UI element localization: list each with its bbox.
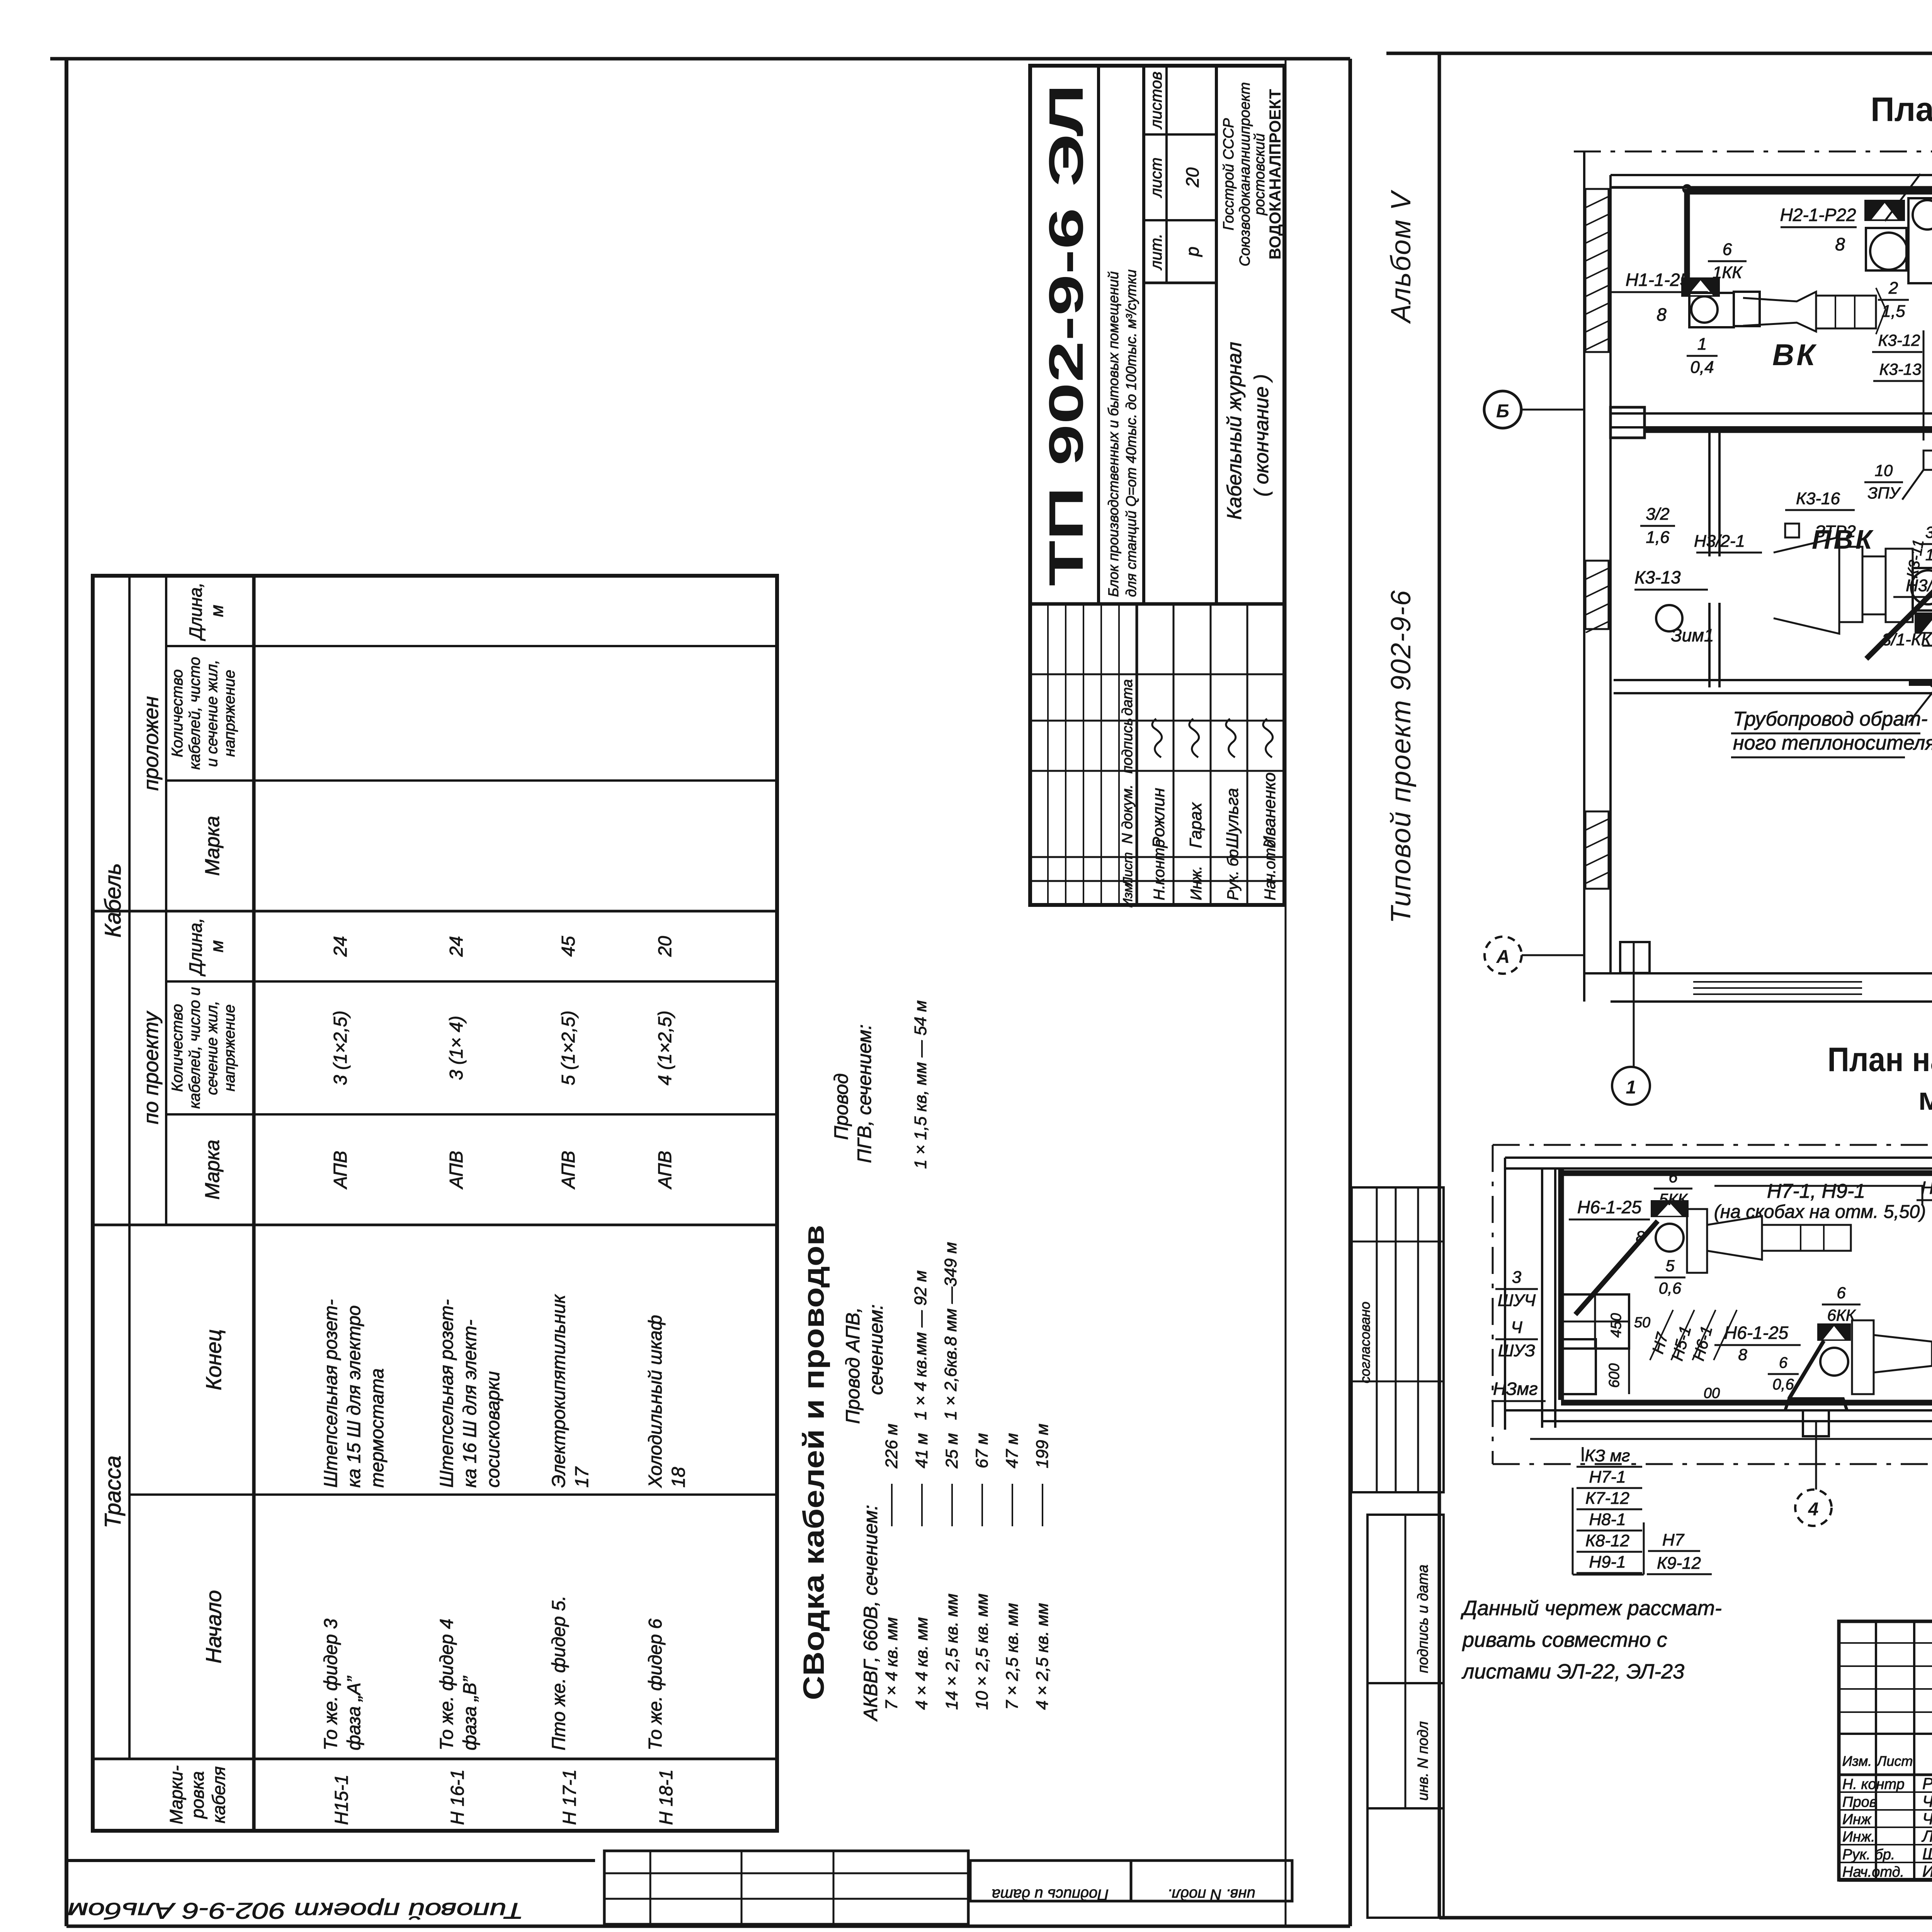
svg-text:(на скобах на отм. 5,50): (на скобах на отм. 5,50) [1714,1202,1926,1222]
svg-text:Н. контр: Н. контр [1842,1776,1905,1793]
svg-text:Лист: Лист [1121,852,1135,887]
pump PVK big [1774,537,1839,634]
svg-text:Типовой проект 902-9-6: Типовой проект 902-9-6 [1386,590,1417,923]
svg-text:м: м [207,605,227,617]
svg-text:НЗмг: НЗмг [1493,1379,1538,1399]
flipped caption boxes [970,1861,1131,1901]
main rows [1097,66,1100,604]
svg-text:199 м: 199 м [1033,1423,1052,1468]
cable journal table outer box [93,576,777,1831]
svg-text:АПВ: АПВ [330,1151,351,1190]
right sheet frame [1438,53,1441,1918]
svg-text:Госстрой СССР: Госстрой СССР [1221,118,1237,230]
svg-text:226 м: 226 м [882,1423,901,1469]
svg-text:ТП 902-9-6 ЭЛ: ТП 902-9-6 ЭЛ [1039,84,1093,586]
outer dash-dot boundary [1493,1144,1932,1146]
svg-text:6: 6 [1668,1168,1678,1186]
svg-text:Количество: Количество [169,1004,186,1092]
svg-text:р: р [1182,247,1202,257]
svg-text:8: 8 [1835,234,1845,254]
svg-text:4 × 4 кв. мм: 4 × 4 кв. мм [912,1617,931,1710]
svg-text:Марка: Марка [201,1139,224,1199]
top wall [1505,1156,1932,1159]
svg-text:ровка: ровка [187,1771,207,1819]
svg-text:Нач.отд.: Нач.отд. [1842,1864,1904,1880]
svg-text:Конец: Конец [201,1329,226,1390]
columns on bottom wall [1620,942,1650,973]
svg-text:ростовский: ростовский [1252,133,1268,216]
svg-text:25 м: 25 м [942,1433,961,1469]
svg-text:Н8-1: Н8-1 [1589,1510,1626,1529]
svg-text:7 × 2,5 кв. мм: 7 × 2,5 кв. мм [1003,1603,1022,1710]
left bottom label stack [1582,1447,1584,1461]
svg-text:термостата: термостата [367,1368,388,1488]
cable boxes under wall [1923,451,1932,470]
svg-text:1 × 4 кв.мм — 92 м: 1 × 4 кв.мм — 92 м [911,1270,930,1420]
svg-text:Штепсельная розет-: Штепсельная розет- [321,1299,341,1488]
svg-text:То же. фидер 4: То же. фидер 4 [437,1619,457,1750]
svg-text:0,6: 0,6 [1659,1279,1682,1297]
svg-text:ка 16 Ш для элект-: ка 16 Ш для элект- [460,1320,480,1488]
svg-text:10: 10 [1875,461,1893,480]
cable loop [1558,1170,1564,1400]
svg-text:План на отм ⁺3300: План на отм ⁺3300 [1871,90,1932,128]
svg-text:АПВ: АПВ [446,1151,467,1190]
svg-text:АКВВГ, 660В, сечением:: АКВВГ, 660В, сечением: [860,1505,881,1722]
svg-text:ного теплоносителя: ного теплоносителя [1733,732,1932,754]
svg-text:Провод АПВ,: Провод АПВ, [842,1307,864,1424]
svg-text:проложен: проложен [139,696,163,791]
svg-text:Рохлин: Рохлин [1922,1774,1932,1793]
svg-text:1 × 1,5 кв, мм — 54 м: 1 × 1,5 кв, мм — 54 м [911,1000,930,1169]
svg-text:подпись и дата: подпись и дата [1415,1565,1431,1673]
svg-text:4 × 2,5 кв. мм: 4 × 2,5 кв. мм [1033,1603,1052,1710]
svg-text:Типовой проект 902-9-6: Типовой проект 902-9-6 Альбом [68,1898,524,1923]
svg-text:Н3/2-1: Н3/2-1 [1694,532,1745,551]
binding strip: left sheet edge line [1349,59,1352,1926]
svg-text:14 × 2,5 кв. мм: 14 × 2,5 кв. мм [942,1594,961,1710]
svg-text:напряжение: напряжение [221,1004,238,1091]
top wall [1611,174,1932,176]
svg-text:Н7: Н7 [1662,1531,1685,1549]
svg-text:Пров: Пров [1842,1794,1877,1810]
svg-text:лист: лист [1147,157,1165,198]
svg-text:ПГВ, сечением:: ПГВ, сечением: [854,1024,875,1163]
svg-text:3/1: 3/1 [1925,523,1932,541]
svg-text:Ч: Ч [1511,1318,1522,1337]
svg-text:Н2-1-Р22: Н2-1-Р22 [1780,205,1856,225]
svg-text:Гарах: Гарах [1186,802,1205,848]
svg-text:Трасса: Трасса [100,1456,126,1528]
svg-text:К3-13: К3-13 [1879,360,1922,378]
fan unit 1 [1681,277,1720,297]
svg-text:6: 6 [1723,240,1732,259]
svg-text:41 м: 41 м [912,1433,931,1468]
svg-text:24: 24 [330,936,351,957]
svg-text:5 (1×2,5): 5 (1×2,5) [558,1010,579,1085]
svg-text:Н7-1, Н9-1: Н7-1, Н9-1 [1767,1180,1865,1202]
svg-text:Инж.: Инж. [1188,866,1205,900]
svg-text:Холодильный шкаф: Холодильный шкаф [645,1315,666,1488]
svg-text:Марка: Марка [201,816,224,876]
svg-text:Н7-1: Н7-1 [1589,1468,1626,1486]
svg-text:45: 45 [558,936,579,957]
inner line near fold [1285,59,1287,1926]
svg-text:фаза „А”: фаза „А” [344,1675,364,1750]
svg-text:Штепсельная розет-: Штепсельная розет- [437,1299,457,1488]
svg-text:Н 17-1: Н 17-1 [560,1769,580,1825]
svg-text:Провод: Провод [830,1073,852,1140]
svg-text:То же. фидер 3: То же. фидер 3 [321,1619,341,1750]
svg-text:Н6-1-25: Н6-1-25 [1724,1323,1789,1343]
column lines [93,1758,777,1760]
svg-text:сосисковарки: сосисковарки [483,1371,503,1488]
svg-text:ВОДОКАНАЛПРОЕКТ: ВОДОКАНАЛПРОЕКТ [1266,89,1284,260]
svg-text:ШУЗ: ШУЗ [1498,1341,1535,1360]
svg-text:Н3/1-1-25: Н3/1-1-25 [1906,576,1932,595]
small stamp grid [604,1851,968,1924]
svg-text:Начало: Начало [201,1590,226,1663]
signature table [1839,1621,1932,1880]
svg-text:То же. фидер 6: То же. фидер 6 [645,1619,666,1750]
svg-text:и сечение жил,: и сечение жил, [204,660,221,767]
svg-text:Чапны: Чапны [1922,1792,1932,1810]
svg-text:1 × 2,6кв.8 мм —349 м: 1 × 2,6кв.8 мм —349 м [941,1242,960,1420]
svg-text:Зим1: Зим1 [1671,625,1714,645]
svg-text:Рук. бр.: Рук. бр. [1225,845,1242,900]
svg-text:согласовано: согласовано [1357,1301,1373,1383]
svg-text:м: м [207,940,227,952]
svg-text:3/1-КК: 3/1-КК [1882,630,1932,649]
cable loop VK [1684,189,1690,287]
svg-text:3 (1× 4): 3 (1× 4) [446,1016,467,1080]
svg-text:ка 15 Ш для электро: ка 15 Ш для электро [344,1305,364,1488]
svg-text:инв. N подл: инв. N подл [1415,1721,1431,1801]
svg-text:Н 18-1: Н 18-1 [656,1769,677,1825]
bubble A [1485,937,1522,974]
svg-text:Н9-1: Н9-1 [1589,1553,1626,1571]
svg-text:20: 20 [1182,167,1202,188]
svg-text:К3-12: К3-12 [1878,331,1920,349]
svg-text:0,4: 0,4 [1690,358,1714,377]
svg-text:Н7-1-Р22: Н7-1-Р22 [1921,1178,1932,1198]
svg-text:Н1-1-25: Н1-1-25 [1626,270,1690,290]
svg-text:1,5: 1,5 [1881,302,1905,321]
bubble 1 [1612,1067,1650,1105]
svg-text:Пто же. фидер 5.: Пто же. фидер 5. [549,1595,569,1750]
svg-text:Нач.отд: Нач.отд [1262,840,1279,901]
bubble 4 [1795,1490,1832,1526]
left sheet frame [65,59,68,1926]
svg-text:К3-13: К3-13 [1634,567,1681,587]
svg-text:инв. N подл.: инв. N подл. [1167,1886,1255,1903]
svg-text:Длина,: Длина, [185,582,206,641]
svg-text:8: 8 [1656,304,1667,325]
svg-text:3: 3 [1512,1268,1522,1287]
fan 6 [1817,1323,1851,1341]
svg-text:1: 1 [1697,335,1707,354]
PVK inner wall [1708,427,1711,556]
svg-text:ЗПУ: ЗПУ [1867,484,1901,502]
bubble B [1484,391,1521,428]
svg-text:Кабельный журнал: Кабельный журнал [1223,342,1246,520]
svg-text:Инж.: Инж. [1842,1829,1875,1845]
svg-text:Н6-1-25: Н6-1-25 [1577,1197,1642,1217]
svg-text:кабелей, число и: кабелей, число и [186,987,203,1109]
svg-text:8: 8 [1738,1345,1747,1364]
svg-text:1,6: 1,6 [1646,528,1670,547]
bottom strip top line [66,1859,595,1862]
svg-text:Длина,: Длина, [185,918,206,977]
svg-text:напряжение: напряжение [221,670,238,757]
svg-text:ШУЧ: ШУЧ [1498,1291,1536,1310]
svg-text:А: А [1496,947,1510,967]
svg-text:КЗ мг: КЗ мг [1585,1446,1630,1465]
header row lines [128,576,131,1759]
signature grid (left of stamp) [1030,880,1284,882]
svg-text:Шульга: Шульга [1922,1845,1932,1863]
svg-text:кабеля: кабеля [209,1766,229,1823]
svg-text:АПВ: АПВ [655,1151,675,1190]
svg-text:3 (1×2,5): 3 (1×2,5) [330,1010,351,1085]
svg-text:Черепанова: Черепанова [1922,1810,1932,1828]
svg-text:6: 6 [1779,1354,1788,1371]
svg-text:( окончание ): ( окончание ) [1250,374,1273,497]
svg-text:лит.: лит. [1147,233,1165,270]
svg-text:К7-12: К7-12 [1585,1489,1629,1508]
svg-text:Н7: Н7 [1648,1330,1672,1356]
svg-text:600: 600 [1606,1363,1622,1388]
svg-text:Шульга: Шульга [1223,788,1242,848]
axis dash-dot top [1574,151,1932,153]
plan1 bottom wall w/ windows [1584,972,1932,975]
svg-text:для станций Q=от 40тыс. до 100: для станций Q=от 40тыс. до 100тыс. м³/су… [1123,269,1139,597]
pilaster hatches [1585,189,1609,352]
svg-text:50: 50 [1634,1315,1650,1331]
svg-text:СВодка кабелей и проводо: СВодка кабелей и проводов [798,1225,830,1700]
svg-text:подпись: подпись [1119,718,1136,774]
svg-text:Рук. бр.: Рук. бр. [1842,1847,1895,1863]
svg-text:5КК: 5КК [1659,1190,1688,1208]
soglasovano grid [1352,1187,1444,1492]
svg-text:сечение жил,: сечение жил, [204,1001,221,1095]
svg-text:5: 5 [1665,1257,1675,1275]
svg-text:Трубопровод обрат-: Трубопровод обрат- [1733,708,1928,730]
svg-text:Подпись и дата: Подпись и дата [992,1886,1109,1903]
svg-text:1КК: 1КК [1713,263,1743,282]
left walls [1504,1158,1506,1430]
svg-text:Иваненко: Иваненко [1260,772,1279,848]
lit/list/listov mini grid [1144,282,1216,284]
svg-text:Изм.: Изм. [1842,1753,1872,1769]
svg-text:К3-16: К3-16 [1796,489,1840,508]
SHUCH grid [1561,1294,1629,1349]
podpis/inv boxes [1367,1515,1444,1808]
svg-text:Рожлин: Рожлин [1149,788,1168,848]
svg-text:47 м: 47 м [1003,1433,1022,1468]
svg-text:Кабель: Кабель [100,863,126,938]
svg-text:К9-12: К9-12 [1657,1554,1701,1573]
svg-text:67 м: 67 м [973,1433,992,1468]
cable along mid wall [1645,427,1932,433]
svg-text:План на отм ⁺ 3.300: План на отм ⁺ 3.300 [1828,1040,1932,1078]
svg-text:4: 4 [1808,1499,1819,1520]
svg-text:1: 1 [1626,1077,1636,1098]
svg-text:Союзводоканалниипроект: Союзводоканалниипроект [1237,82,1253,267]
svg-text:3/2: 3/2 [1646,505,1669,524]
svg-text:АПВ: АПВ [558,1151,579,1190]
svg-text:Б: Б [1496,401,1509,422]
left wall [1583,151,1585,1002]
svg-text:по проекту: по проекту [139,1010,163,1124]
svg-text:фаза „В”: фаза „В” [460,1675,480,1750]
svg-text:1,5: 1,5 [1925,546,1932,564]
svg-text:сечением:: сечением: [865,1304,887,1395]
svg-text:10 × 2,5 кв. мм: 10 × 2,5 кв. мм [973,1594,992,1710]
svg-text:листами ЭЛ-22, ЭЛ-23: листами ЭЛ-22, ЭЛ-23 [1461,1660,1684,1683]
svg-text:2КК: 2КК [1930,177,1932,196]
svg-text:4 (1×2,5): 4 (1×2,5) [655,1010,675,1085]
svg-text:Марки-: Марки- [166,1765,186,1825]
svg-text:Количество: Количество [169,669,186,757]
svg-text:Блок производственных и бытовы: Блок производственных и бытовых помещени… [1105,271,1121,597]
svg-text:6: 6 [1837,1284,1846,1302]
fan unit 2 [1864,200,1905,221]
PVK bottom wall [1614,679,1932,681]
fan 5 [1651,1200,1689,1217]
mid wall VK/PVK [1611,412,1932,415]
svg-text:Лист: Лист [1876,1753,1913,1769]
bottom wall [1505,1409,1932,1412]
svg-text:2: 2 [1888,279,1898,298]
svg-text:24: 24 [446,936,467,957]
svg-text:Данный чертеж рассмат-: Данный чертеж рассмат- [1461,1597,1722,1620]
svg-text:ривать совместно с: ривать совместно с [1462,1628,1667,1651]
svg-text:дата: дата [1119,679,1136,716]
svg-text:18: 18 [668,1467,689,1488]
svg-text:450: 450 [1608,1313,1624,1337]
svg-text:ВК: ВК [1772,338,1817,372]
svg-text:Иваненко: Иваненко [1922,1862,1932,1880]
svg-text:Н 16-1: Н 16-1 [447,1769,468,1825]
svg-text:20: 20 [655,936,675,957]
svg-text:Лосева: Лосева [1921,1827,1932,1845]
svg-text:М 1:50: М 1:50 [1918,1087,1932,1115]
svg-text:Альбом V: Альбом V [1386,190,1417,324]
svg-text:6КК: 6КК [1827,1306,1856,1324]
svg-text:кабелей, чисто: кабелей, чисто [186,657,203,770]
svg-text:7 × 4 кв. мм: 7 × 4 кв. мм [882,1617,901,1710]
bottom center column [1803,1410,1829,1436]
svg-text:0,6: 0,6 [1772,1376,1794,1393]
svg-text:Электрокипятильник: Электрокипятильник [549,1294,569,1488]
svg-text:К8-12: К8-12 [1585,1531,1629,1550]
svg-text:N докум.: N докум. [1119,784,1136,844]
svg-text:Н15-1: Н15-1 [332,1774,352,1825]
title block box [1030,66,1284,905]
svg-text:листов: листов [1147,71,1165,130]
svg-text:00: 00 [1704,1385,1720,1401]
svg-text:17: 17 [572,1466,592,1488]
svg-text:Инж: Инж [1842,1811,1872,1828]
